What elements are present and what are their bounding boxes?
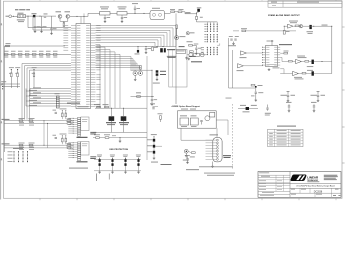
connector J6 system header (8, 148, 28, 163)
resistor row R10-R17 programming divider (4, 51, 71, 58)
wire C1 to Q1 (46, 15, 56, 17)
connector JP1 jumper bank (204, 22, 217, 32)
diode D4 dual zener (153, 70, 166, 83)
resistor R4 (187, 41, 199, 46)
wire Q gates (60, 18, 68, 26)
op-amp U8 option regulator block (178, 109, 217, 129)
fuse F1 (17, 13, 26, 22)
wire U1 VCC stubs (81, 13, 84, 23)
resistor network pull-ups R20 R21 R22 (9, 67, 37, 88)
op-amp U7A (240, 51, 263, 58)
diode D14 zener stack (147, 134, 162, 162)
border zone tick marks (0, 0, 344, 200)
LED D8 (183, 149, 189, 160)
label To SMBus host (2, 119, 10, 144)
svg-text:4 WIRE Option Board Support: 4 WIRE Option Board Support (172, 105, 201, 108)
resistor R7 (131, 92, 155, 97)
wire VIN rail to stand-alone (165, 12, 171, 14)
label STAND ALONE DEMO OUTPUT (268, 14, 300, 17)
resistor R32 (280, 51, 288, 54)
label Opt. Charger Input (15, 9, 30, 10)
capacitor C6 under R1 (121, 15, 127, 23)
connector J7 option DIN (206, 128, 232, 162)
title text LTC1760 Dual Smart Battery Charger Board (296, 184, 334, 187)
transistor Q3 PowerPath MOSFET pair (150, 8, 165, 20)
connector J4 smart battery (68, 142, 96, 163)
connector J1 input jack (6, 15, 18, 18)
capacitor C7 (132, 3, 140, 13)
svg-text:DC2038: DC2038 (314, 191, 323, 193)
capacitor C1 (44, 14, 48, 18)
capacitor C8 bulk (197, 7, 202, 13)
wire option to connector (181, 120, 228, 140)
wire stand-alone left rail (229, 38, 255, 88)
capacitor C5 under L1 (104, 15, 110, 23)
capacitor C3 (40, 16, 46, 32)
connector JP3 jumper bank (201, 43, 220, 55)
resistor R5 (185, 51, 196, 59)
capacitor C2 (34, 16, 40, 32)
op-amp U5A (284, 21, 299, 29)
wire right rail x176 (175, 24, 177, 104)
capacitor C10 (145, 47, 151, 54)
resistor R40-R43 SMBus series (64, 119, 73, 149)
resistor R30 (233, 28, 296, 31)
capacitor C11 (151, 97, 157, 106)
label connector note (199, 166, 235, 175)
transistor Q7 with LED D6 (302, 60, 332, 67)
resistor R44-R47 SMBus pull-ups (53, 109, 67, 145)
capacitor C9 (195, 45, 202, 54)
capacitor C13 (281, 91, 296, 102)
wire section divider dashed (232, 104, 234, 169)
wire source bus (93, 121, 147, 132)
wire U1 right fanout bus (96, 13, 177, 108)
transistor Q1 PFET (56, 11, 62, 18)
label vertical net name (96, 174, 110, 182)
wire SMBus SDA SCL trunk (4, 120, 64, 148)
resistor R16 (188, 151, 195, 157)
capacitor C19 (185, 155, 190, 164)
transistor Q9 crowbar (187, 53, 207, 63)
connector J3 smart battery (68, 117, 96, 138)
wire D1 to C1 (35, 16, 44, 17)
wire output rail (331, 26, 332, 74)
resistor R18 (6, 43, 11, 47)
resistor R9 (103, 104, 109, 108)
op-amp U6 comparator (131, 65, 153, 81)
label Stand-On note (186, 168, 199, 171)
label ESD PROTECTION (110, 149, 129, 151)
transistor Q10 NFET (106, 108, 116, 125)
resistor R8 (94, 104, 100, 108)
resistor R12 (93, 134, 105, 138)
table jumper functions (268, 126, 303, 147)
revision table (268, 1, 342, 8)
title block address text (324, 175, 338, 180)
wire 3.3V node (152, 70, 153, 97)
label VIN net (186, 11, 191, 14)
resistor R19 (195, 14, 202, 22)
wire U1 mid fanout to comparators (96, 57, 142, 71)
label Auto Stand Power (161, 164, 172, 165)
op-amp U9 micro block (176, 46, 185, 53)
diode array D10-D13 ESD TVS (94, 155, 141, 174)
svg-text:LINEAR: LINEAR (307, 175, 319, 179)
wire VIN to jumpers (197, 21, 218, 23)
wire F1 to D1 (26, 15, 34, 17)
label Option Board Support (172, 105, 201, 108)
wire input nets to U1 (28, 16, 72, 30)
connector J5 battery sense (55, 93, 60, 108)
label DUAL SMART caption (69, 167, 88, 170)
wire U4 to U5B (280, 58, 282, 62)
resistor R1 sense (117, 7, 150, 16)
shield box charger section (169, 50, 187, 88)
resistor R2 (170, 9, 178, 12)
op-amp U1 LTC1760CFW battery charger controller (63, 24, 100, 109)
resistor R33 (283, 26, 289, 34)
logo Linear Technology mark (290, 175, 306, 182)
wire 12V rail (96, 46, 177, 47)
resistor R14 (158, 113, 163, 122)
capacitor C17 (286, 102, 292, 112)
svg-text:LTC1760CFW Dual Smart Battery: LTC1760CFW Dual Smart Battery Charger Bo… (296, 184, 334, 187)
LED D5 (303, 25, 332, 34)
capacitor C16 (265, 105, 271, 116)
transistor Q5 PFET pair (160, 48, 176, 58)
capacitor C14 (311, 91, 326, 102)
op-amp U5B (282, 56, 307, 64)
inductor L1 (100, 7, 118, 16)
LED D2 charge (175, 25, 186, 40)
resistor R6 (152, 47, 158, 51)
diode D1 (32, 13, 37, 17)
title block frame (258, 172, 341, 198)
transistor Q8 with LED D7 (299, 70, 332, 76)
LED D3 status (186, 32, 194, 35)
label x node (226, 97, 232, 100)
connector JP2 jumper bank (204, 34, 217, 42)
wire VDD rail left (4, 46, 65, 152)
connector SMBUS header (1, 81, 20, 89)
resistor R13 (104, 134, 147, 142)
sheet border frame (0, 0, 342, 200)
transistor Q2 PFET (65, 11, 71, 18)
op-amp U7B (237, 64, 263, 71)
capacitor C30 with R31 (228, 36, 239, 46)
diode D9 (238, 105, 258, 112)
wire U1 left fanout bus (22, 64, 71, 120)
ground option connector (211, 162, 214, 168)
op-amp U5C (280, 69, 303, 80)
capacitor C18 (311, 102, 317, 112)
resistor R3 (178, 9, 197, 14)
svg-text:STAND ALONE DEMO OUTPUT: STAND ALONE DEMO OUTPUT (268, 14, 300, 17)
capacitor C31 cluster (251, 84, 263, 101)
op-amp U4 hex inverter (262, 40, 292, 70)
wire SMBus nets bus (26, 87, 71, 106)
wire mid column (146, 56, 148, 160)
svg-text:ESD PROTECTION: ESD PROTECTION (110, 149, 129, 151)
transistor Q11 NFET (119, 108, 129, 125)
resistor R50-R53 SMBus filters (19, 118, 35, 150)
wire gate drive (95, 108, 147, 109)
wire Q2 to VIN rail (70, 13, 100, 17)
transistor Q6 (299, 25, 303, 28)
capacitor C15 (150, 103, 158, 109)
transistor Q4 (135, 47, 140, 55)
capacitor C4 (50, 16, 56, 34)
logo Linear Technology text (307, 175, 319, 182)
